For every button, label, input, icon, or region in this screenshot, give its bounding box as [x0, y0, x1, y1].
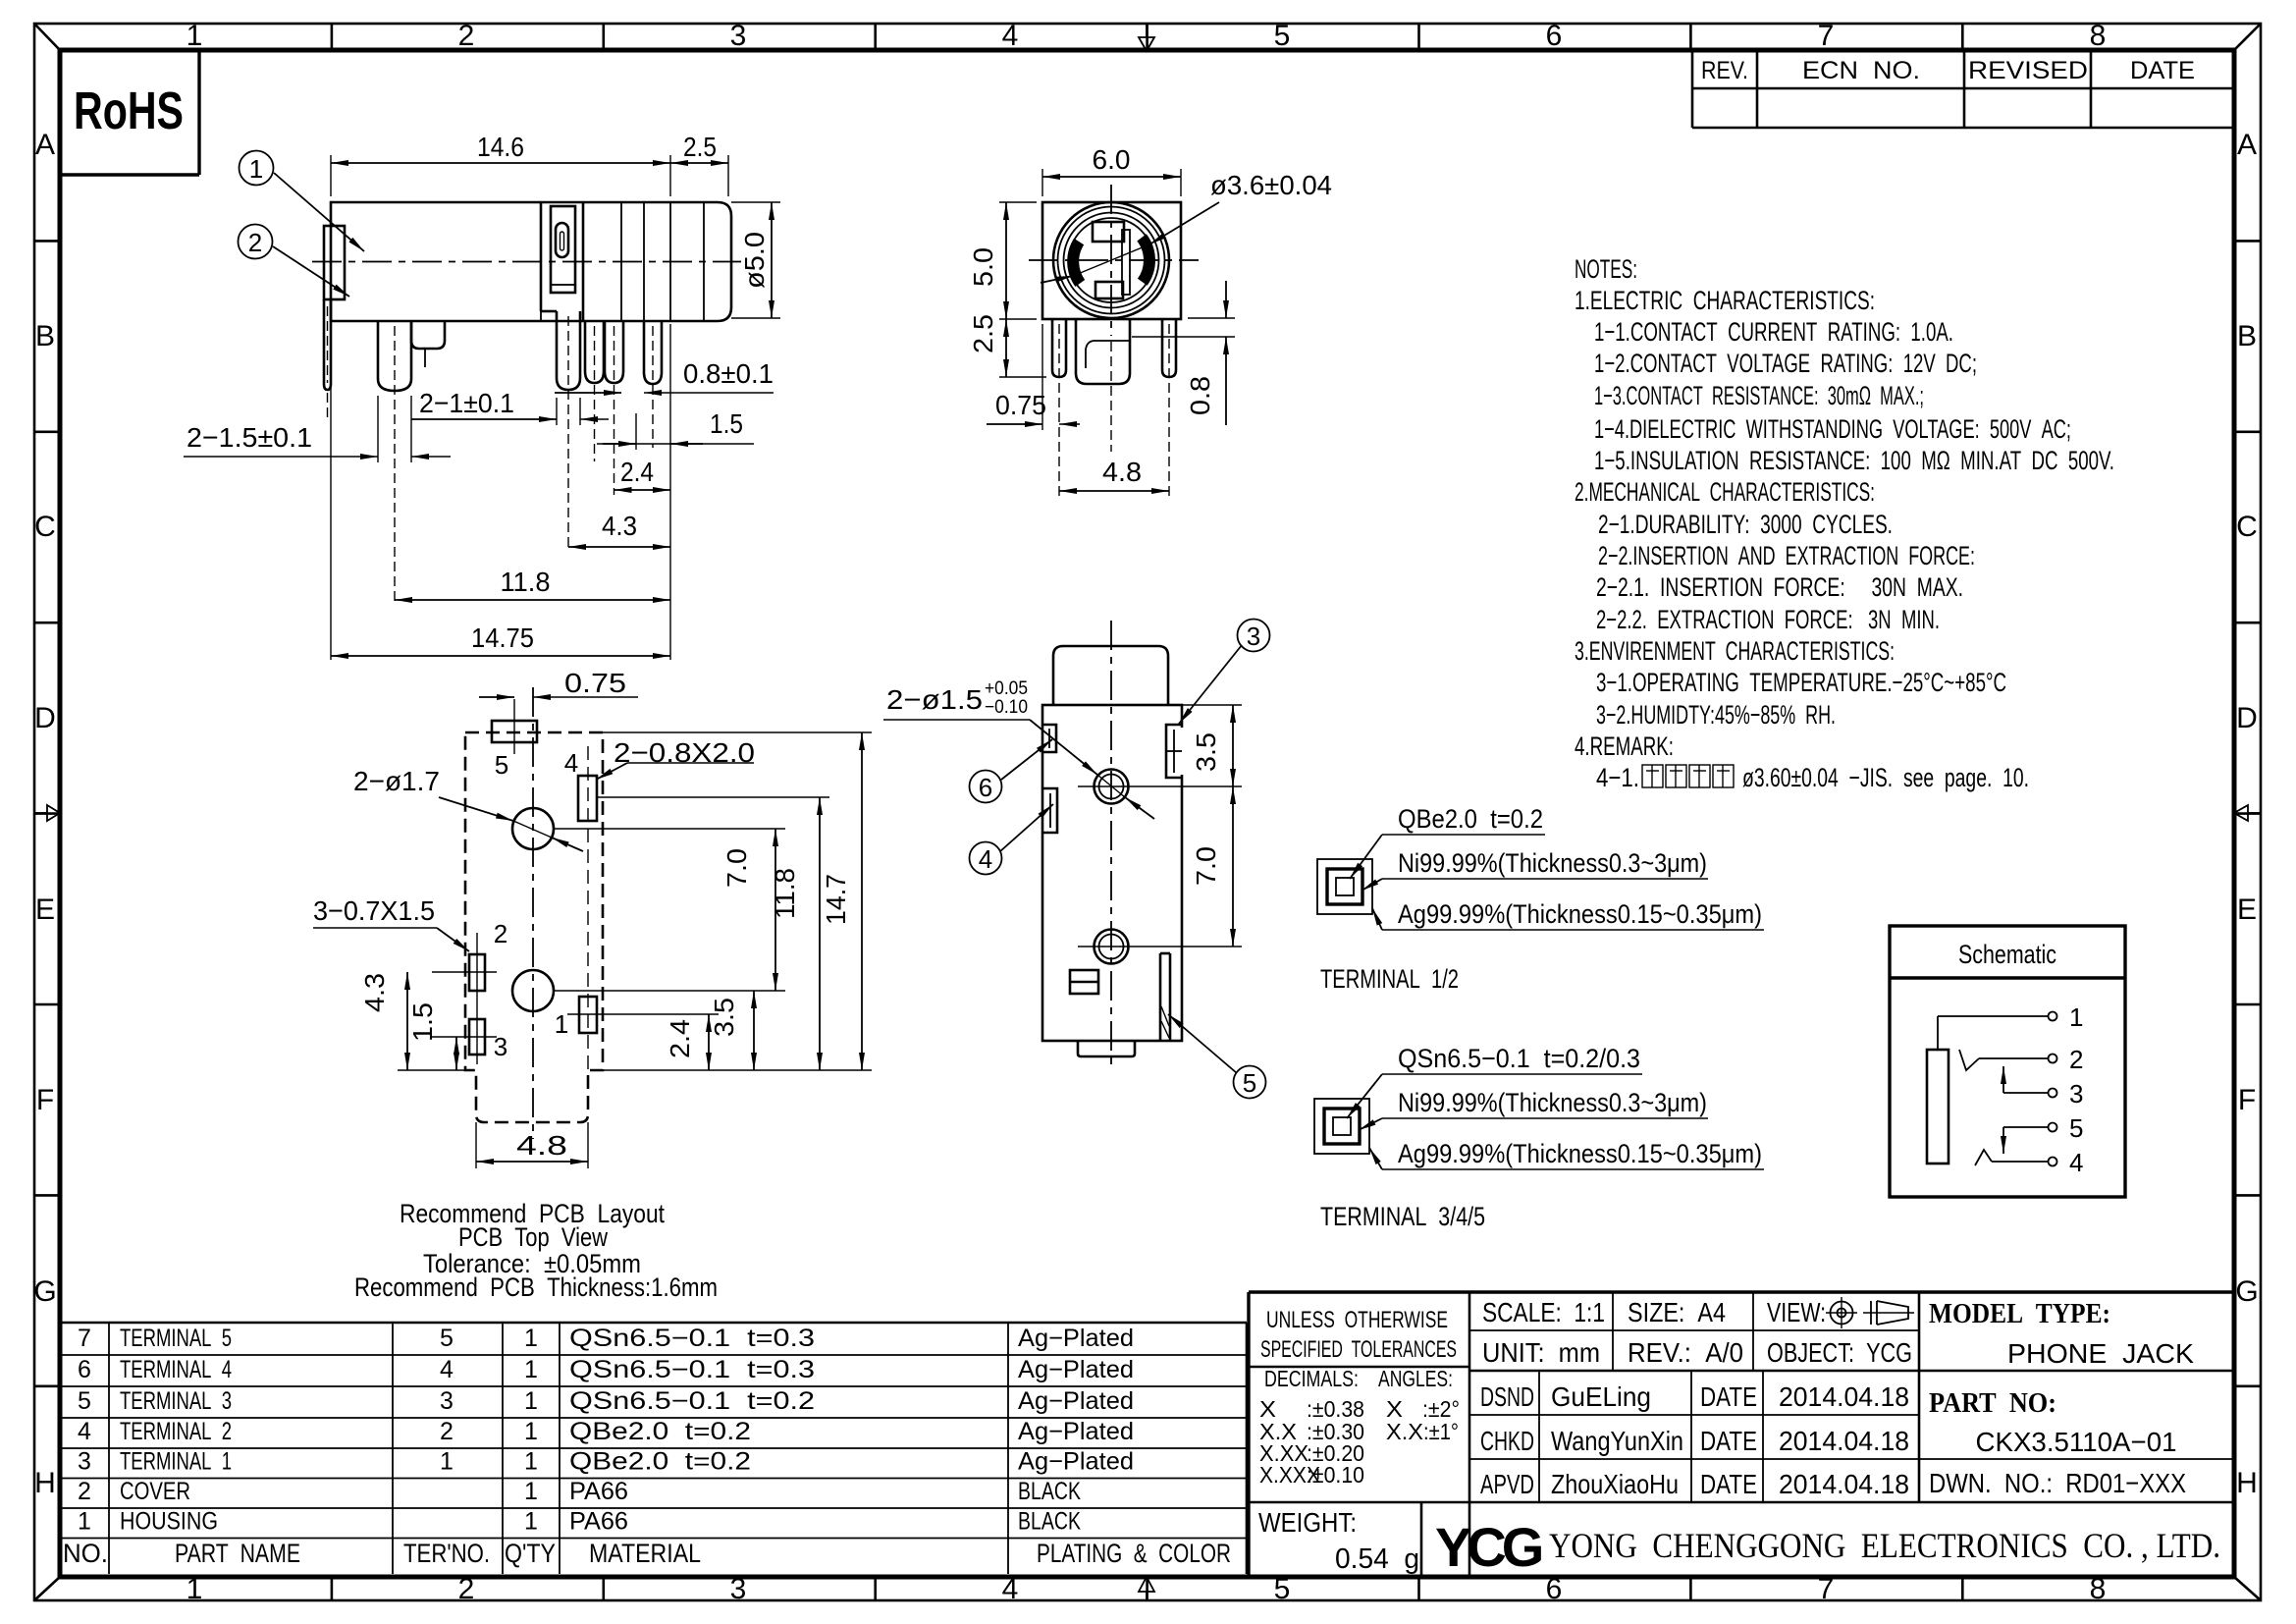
svg-text:Schematic: Schematic [1958, 940, 2056, 969]
svg-text:5: 5 [2069, 1113, 2083, 1143]
svg-text:6: 6 [78, 1356, 91, 1383]
svg-text:1: 1 [524, 1478, 538, 1505]
svg-text:7.0: 7.0 [1191, 846, 1221, 886]
svg-text:2−1±0.1: 2−1±0.1 [419, 388, 514, 418]
svg-text:B: B [2237, 320, 2257, 352]
svg-text:2014.04.18: 2014.04.18 [1779, 1426, 1909, 1456]
svg-text:3: 3 [730, 20, 747, 52]
svg-text:NOTES:: NOTES: [1575, 254, 1637, 284]
svg-text:1: 1 [524, 1356, 538, 1383]
svg-text:Ni99.99%(Thickness0.3~3μm): Ni99.99%(Thickness0.3~3μm) [1398, 1088, 1707, 1117]
svg-text:1.5: 1.5 [710, 408, 743, 439]
svg-text:2−2.2. EXTRACTION FORCE: 3: 2−2.2. EXTRACTION FORCE: 3N MIN. [1596, 605, 1940, 634]
svg-text:2: 2 [248, 228, 262, 257]
svg-text:MATERIAL: MATERIAL [589, 1539, 701, 1568]
svg-text:4: 4 [1002, 1573, 1019, 1605]
svg-text:UNIT: mm: UNIT: mm [1482, 1337, 1600, 1368]
svg-text:4: 4 [564, 748, 578, 778]
svg-text:4: 4 [2069, 1148, 2083, 1177]
svg-text:1−3.CONTACT RESISTANCE: 30mΩ: 1−3.CONTACT RESISTANCE: 30mΩ MAX.; [1594, 381, 1924, 410]
svg-text:G: G [33, 1275, 56, 1308]
svg-text:C: C [2236, 511, 2258, 543]
svg-text:CKX3.5110A−01: CKX3.5110A−01 [1976, 1427, 2177, 1457]
svg-text:7: 7 [78, 1325, 91, 1352]
svg-text:1: 1 [440, 1448, 454, 1476]
svg-text:SPECIFIED TOLERANCES: SPECIFIED TOLERANCES [1260, 1336, 1457, 1363]
svg-text::±0.10: :±0.10 [1307, 1462, 1364, 1488]
svg-text:2−ø1.5: 2−ø1.5 [886, 684, 983, 715]
svg-text:DECIMALS:: DECIMALS: [1264, 1366, 1359, 1391]
svg-text:3−0.7X1.5: 3−0.7X1.5 [313, 895, 435, 926]
svg-text:1: 1 [524, 1387, 538, 1415]
svg-text:REV.: A/0: REV.: A/0 [1628, 1337, 1743, 1368]
svg-text:3.5: 3.5 [709, 998, 739, 1037]
svg-text:1: 1 [249, 154, 263, 184]
svg-text:MODEL TYPE:: MODEL TYPE: [1929, 1298, 2110, 1329]
svg-text:11.8: 11.8 [770, 868, 800, 919]
svg-text:6: 6 [1546, 1573, 1563, 1605]
svg-text:4: 4 [979, 844, 992, 874]
svg-text:BLACK: BLACK [1018, 1478, 1081, 1505]
svg-text:3−2.HUMIDTY:45%−85% RH.: 3−2.HUMIDTY:45%−85% RH. [1596, 700, 1836, 730]
svg-text:3: 3 [78, 1448, 91, 1476]
svg-text:UNLESS OTHERWISE: UNLESS OTHERWISE [1266, 1307, 1448, 1333]
svg-text:5: 5 [1274, 1573, 1291, 1605]
svg-text:Ag99.99%(Thickness0.15~0.35μm): Ag99.99%(Thickness0.15~0.35μm) [1398, 1139, 1762, 1168]
svg-text:4.8: 4.8 [1102, 457, 1142, 487]
svg-text:TERMINAL 2: TERMINAL 2 [120, 1418, 232, 1445]
svg-text:D: D [34, 702, 56, 734]
svg-text:1: 1 [524, 1448, 538, 1476]
svg-text:14.6: 14.6 [477, 132, 524, 162]
svg-text:5: 5 [1274, 20, 1291, 52]
svg-text:8: 8 [2090, 20, 2107, 52]
svg-text:3: 3 [730, 1573, 747, 1605]
svg-text:ECN NO.: ECN NO. [1802, 57, 1920, 84]
svg-text:2: 2 [440, 1418, 454, 1445]
svg-text:0.75: 0.75 [995, 390, 1046, 420]
svg-text:4.3: 4.3 [359, 973, 390, 1012]
svg-text:QSn6.5−0.1 t=0.3: QSn6.5−0.1 t=0.3 [569, 1356, 815, 1383]
svg-text:DATE: DATE [1700, 1426, 1757, 1456]
svg-text:2.5: 2.5 [968, 314, 998, 353]
svg-text:F: F [2238, 1084, 2256, 1116]
svg-text:1: 1 [78, 1508, 91, 1536]
svg-text:6.0: 6.0 [1093, 144, 1131, 175]
svg-text:TERMINAL 3: TERMINAL 3 [120, 1387, 232, 1415]
svg-text:14.7: 14.7 [821, 874, 851, 925]
svg-text:8: 8 [2090, 1573, 2107, 1605]
svg-text:Recommend PCB Thickness:1.6m: Recommend PCB Thickness:1.6mm [354, 1272, 718, 1302]
svg-text:ø3.60±0.04 −JIS. see page.: ø3.60±0.04 −JIS. see page. 10. [1742, 763, 2029, 792]
svg-text:PART NAME: PART NAME [175, 1539, 300, 1568]
svg-text:4−1.: 4−1. [1596, 763, 1639, 792]
svg-text:1: 1 [187, 1573, 203, 1605]
svg-text:7.0: 7.0 [721, 848, 752, 888]
svg-text:3.ENVIRENMENT CHARACTERISTICS: 3.ENVIRENMENT CHARACTERISTICS: [1575, 636, 1895, 666]
svg-text:1.5: 1.5 [407, 1002, 438, 1042]
svg-text:1−1.CONTACT CURRENT RATING:: 1−1.CONTACT CURRENT RATING: 1.0A. [1594, 317, 1953, 347]
svg-text:QBe2.0 t=0.2: QBe2.0 t=0.2 [569, 1418, 751, 1445]
svg-text:RoHS: RoHS [74, 81, 184, 140]
svg-text:2.4: 2.4 [665, 1019, 695, 1058]
svg-text:TER'NO.: TER'NO. [403, 1539, 490, 1568]
svg-text:Ag99.99%(Thickness0.15~0.35μm): Ag99.99%(Thickness0.15~0.35μm) [1398, 899, 1762, 929]
svg-text:Ag−Plated: Ag−Plated [1018, 1387, 1134, 1415]
svg-text:TERMINAL 1/2: TERMINAL 1/2 [1320, 964, 1459, 994]
svg-text:2014.04.18: 2014.04.18 [1779, 1469, 1909, 1499]
svg-text:H: H [2236, 1467, 2258, 1499]
svg-text:Ag−Plated: Ag−Plated [1018, 1448, 1134, 1476]
svg-text:7: 7 [1818, 1573, 1835, 1605]
svg-text:4.8: 4.8 [516, 1130, 567, 1161]
svg-text:0.54 g: 0.54 g [1335, 1543, 1419, 1575]
svg-text:6: 6 [1546, 20, 1563, 52]
svg-text:TERMINAL 3/4/5: TERMINAL 3/4/5 [1320, 1202, 1485, 1231]
svg-text:YONG CHENGGONG ELECTRONICS: YONG CHENGGONG ELECTRONICS CO. , LTD. [1549, 1526, 2220, 1565]
svg-text:7: 7 [1818, 20, 1835, 52]
svg-text:QSn6.5−0.1 t=0.3: QSn6.5−0.1 t=0.3 [569, 1325, 815, 1352]
svg-text:−0.10: −0.10 [985, 697, 1028, 718]
svg-text:ø5.0: ø5.0 [739, 232, 770, 289]
svg-text:WEIGHT:: WEIGHT: [1258, 1507, 1357, 1538]
svg-text:ANGLES:: ANGLES: [1378, 1366, 1453, 1391]
svg-text:COVER: COVER [120, 1478, 190, 1505]
svg-text:1: 1 [555, 1009, 568, 1039]
svg-text:Q'TY: Q'TY [505, 1539, 556, 1568]
svg-text:PHONE JACK: PHONE JACK [2007, 1338, 2194, 1369]
svg-text:PA66: PA66 [569, 1478, 628, 1505]
svg-text:TERMINAL 1: TERMINAL 1 [120, 1448, 232, 1476]
svg-text:3.5: 3.5 [1191, 732, 1221, 772]
svg-text:5: 5 [78, 1387, 91, 1415]
svg-text:1: 1 [2069, 1002, 2083, 1032]
svg-text:5: 5 [495, 750, 508, 780]
svg-text:1−5.INSULATION RESISTANCE: 1: 1−5.INSULATION RESISTANCE: 100 MΩ MIN.AT… [1594, 446, 2114, 475]
svg-text:Ni99.99%(Thickness0.3~3μm): Ni99.99%(Thickness0.3~3μm) [1398, 848, 1707, 878]
svg-text:4: 4 [440, 1356, 454, 1383]
svg-text:PART NO:: PART NO: [1929, 1387, 2056, 1419]
svg-text:QSn6.5−0.1 t=0.2: QSn6.5−0.1 t=0.2 [569, 1387, 815, 1415]
svg-text:3: 3 [2069, 1079, 2083, 1109]
svg-text:PCB Top View: PCB Top View [458, 1222, 608, 1252]
svg-text:DATE: DATE [1700, 1469, 1757, 1499]
svg-text:QBe2.0 t=0.2: QBe2.0 t=0.2 [569, 1448, 751, 1476]
svg-text:11.8: 11.8 [501, 567, 551, 597]
svg-text:GuELing: GuELing [1551, 1381, 1651, 1412]
svg-text:TERMINAL 5: TERMINAL 5 [120, 1325, 232, 1352]
svg-text:E: E [35, 893, 55, 926]
svg-text:CHKD: CHKD [1480, 1426, 1534, 1456]
svg-text:ZhouXiaoHu: ZhouXiaoHu [1551, 1469, 1679, 1499]
svg-text:B: B [35, 320, 55, 352]
svg-text:PLATING & COLOR: PLATING & COLOR [1037, 1539, 1231, 1568]
svg-text:BLACK: BLACK [1018, 1508, 1081, 1536]
svg-text:0.8±0.1: 0.8±0.1 [683, 358, 774, 389]
svg-text:2−2.1. INSERTION FORCE:: 2−2.1. INSERTION FORCE: 30N MAX. [1596, 572, 1963, 602]
svg-text:REVISED: REVISED [1968, 57, 2088, 84]
svg-text:1.ELECTRIC CHARACTERISTICS:: 1.ELECTRIC CHARACTERISTICS: [1575, 286, 1875, 315]
svg-text:PA66: PA66 [569, 1508, 628, 1536]
svg-text:Ag−Plated: Ag−Plated [1018, 1418, 1134, 1445]
svg-text:4.3: 4.3 [602, 511, 637, 541]
svg-text:QBe2.0 t=0.2: QBe2.0 t=0.2 [1398, 804, 1543, 834]
svg-text:1: 1 [524, 1508, 538, 1536]
svg-text:Ag−Plated: Ag−Plated [1018, 1325, 1134, 1352]
svg-text:Ag−Plated: Ag−Plated [1018, 1356, 1134, 1383]
svg-text:5.0: 5.0 [968, 247, 998, 287]
svg-text:3: 3 [1247, 622, 1260, 651]
svg-text:D: D [2236, 702, 2258, 734]
svg-text:0.8: 0.8 [1185, 376, 1215, 415]
svg-text:SIZE: A4: SIZE: A4 [1628, 1297, 1726, 1327]
svg-text::±1°: :±1° [1423, 1419, 1459, 1444]
svg-text:2: 2 [494, 919, 507, 948]
svg-text:2: 2 [458, 20, 475, 52]
svg-text:3: 3 [440, 1387, 454, 1415]
svg-text:DWN. NO.: RD01−XXX: DWN. NO.: RD01−XXX [1929, 1468, 2186, 1498]
svg-text:3−1.OPERATING TEMPERATURE.−25: 3−1.OPERATING TEMPERATURE.−25°C~+85°C [1596, 668, 2006, 697]
svg-text:+0.05: +0.05 [985, 678, 1028, 699]
svg-text:F: F [36, 1084, 54, 1116]
svg-text:SCALE: 1:1: SCALE: 1:1 [1482, 1297, 1605, 1327]
svg-text:NO.: NO. [63, 1539, 108, 1568]
svg-text:0.75: 0.75 [564, 668, 626, 698]
svg-text:2: 2 [78, 1478, 91, 1505]
svg-text:1: 1 [524, 1418, 538, 1445]
svg-text:REV.: REV. [1701, 57, 1748, 84]
svg-text:E: E [2237, 893, 2257, 926]
svg-text:G: G [2235, 1275, 2258, 1308]
svg-text:DSND: DSND [1480, 1381, 1534, 1412]
svg-text:1: 1 [187, 20, 203, 52]
svg-text:2−1.DURABILITY: 3000 CYCLES.: 2−1.DURABILITY: 3000 CYCLES. [1598, 510, 1893, 539]
svg-text:QSn6.5−0.1 t=0.2/0.3: QSn6.5−0.1 t=0.2/0.3 [1398, 1044, 1640, 1073]
svg-text:2.MECHANICAL CHARACTERISTICS:: 2.MECHANICAL CHARACTERISTICS: [1575, 477, 1875, 507]
svg-text:6: 6 [979, 773, 992, 802]
svg-text:HOUSING: HOUSING [120, 1508, 218, 1536]
svg-text:2: 2 [458, 1573, 475, 1605]
svg-text:C: C [34, 511, 56, 543]
svg-text:5: 5 [1243, 1068, 1256, 1098]
svg-text:1: 1 [524, 1325, 538, 1352]
svg-text:4: 4 [1002, 20, 1019, 52]
svg-text:X.X: X.X [1386, 1419, 1423, 1444]
svg-text:APVD: APVD [1480, 1469, 1534, 1499]
svg-text:2: 2 [2069, 1045, 2083, 1074]
svg-text:H: H [34, 1467, 56, 1499]
svg-text:4: 4 [78, 1418, 91, 1445]
svg-text:2−ø1.7: 2−ø1.7 [353, 766, 440, 796]
svg-text:A: A [2237, 129, 2257, 161]
svg-text:2014.04.18: 2014.04.18 [1779, 1381, 1909, 1412]
svg-text:1−4.DIELECTRIC WITHSTANDING: 1−4.DIELECTRIC WITHSTANDING VOLTAGE: 500… [1594, 414, 2071, 444]
svg-text:WangYunXin: WangYunXin [1551, 1426, 1683, 1456]
svg-text:2.5: 2.5 [683, 132, 717, 162]
svg-text:14.75: 14.75 [471, 623, 534, 653]
svg-text:4.REMARK:: 4.REMARK: [1575, 731, 1674, 761]
svg-text:ø3.6±0.04: ø3.6±0.04 [1210, 170, 1332, 200]
svg-text:OBJECT: YCG: OBJECT: YCG [1767, 1337, 1912, 1368]
svg-text:2−2.INSERTION AND EXTRACTION: 2−2.INSERTION AND EXTRACTION FORCE: [1598, 541, 1975, 570]
svg-text:TERMINAL 4: TERMINAL 4 [120, 1356, 232, 1383]
svg-text:1−2.CONTACT VOLTAGE RATING:: 1−2.CONTACT VOLTAGE RATING: 12V DC; [1594, 349, 1977, 378]
svg-text:YCG: YCG [1435, 1516, 1542, 1578]
svg-text:DATE: DATE [2130, 57, 2195, 84]
svg-text:2.4: 2.4 [620, 457, 654, 487]
svg-text:A: A [35, 129, 55, 161]
svg-text:VIEW:: VIEW: [1767, 1297, 1826, 1327]
svg-text:5: 5 [440, 1325, 454, 1352]
svg-text:DATE: DATE [1700, 1381, 1757, 1412]
svg-text:2−1.5±0.1: 2−1.5±0.1 [187, 422, 312, 453]
